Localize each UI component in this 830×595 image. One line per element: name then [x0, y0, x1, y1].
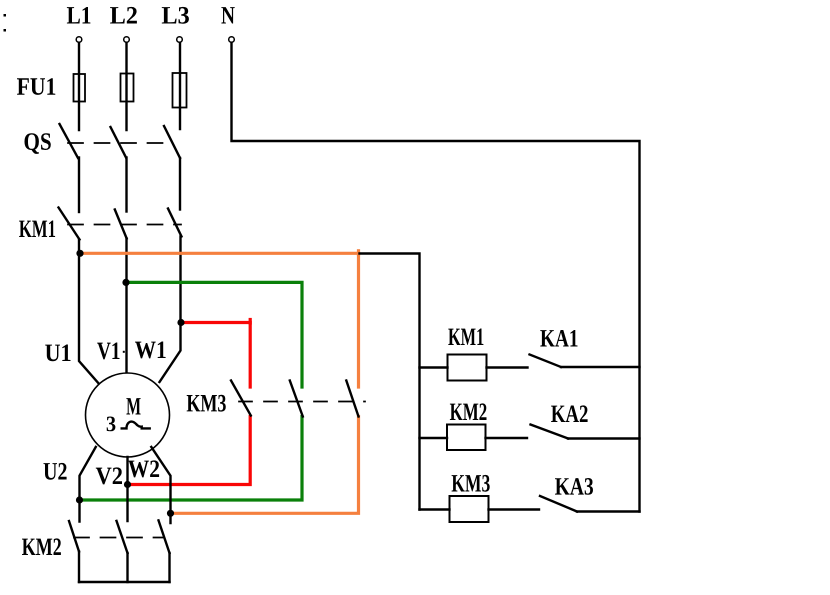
wire QS pole 3 to KM1	[179, 158, 181, 210]
coil KM1	[448, 355, 487, 381]
junction W2-orange	[167, 510, 174, 517]
fuse FU1 pole 2	[121, 74, 134, 102]
label QS	[25, 133, 51, 154]
wire L2 through fuse to QS	[125, 43, 127, 130]
label KM1 (coil)	[448, 329, 483, 346]
label 3 (motor)	[107, 417, 116, 432]
contact KM2 link (dashed)	[74, 537, 163, 539]
label W2	[128, 460, 159, 477]
wire motor W2 lead	[151, 447, 170, 523]
contact KM3 link (dashed)	[239, 401, 365, 403]
wire orange corner nub	[357, 251, 360, 254]
coil KM3	[450, 496, 489, 522]
wire star point bar	[79, 581, 170, 583]
contact KM2 pole 3 blade	[159, 520, 170, 553]
wire bus to coil KM2	[420, 437, 448, 439]
wire KM2 pole 3 down	[168, 553, 170, 582]
wire KM1 pole 1 to motor U1	[79, 240, 99, 385]
label KM3	[187, 395, 226, 412]
coil KM2	[447, 425, 486, 451]
label U2	[44, 463, 67, 480]
speck after V1	[123, 351, 125, 353]
wire L3 through fuse to QS	[179, 43, 181, 129]
junction V1-green	[122, 279, 129, 286]
wire bus to coil KM1	[420, 366, 448, 368]
wire coil KM1 to KA1	[487, 366, 528, 368]
junction U1-orange	[76, 250, 83, 257]
contact KM1 link (dashed)	[68, 224, 181, 226]
label V1	[97, 343, 119, 360]
wire N to right bus	[232, 43, 640, 512]
switch QS pole 2 blade	[111, 127, 127, 158]
wire L1 through fuse to QS	[78, 43, 80, 130]
wire coil KM3 to KA3	[489, 508, 540, 510]
contact KM1 pole 2 blade	[115, 210, 127, 239]
junction V2-red	[124, 481, 131, 488]
contact KM1 pole 3 blade	[168, 209, 182, 237]
junction W1-red	[177, 319, 184, 326]
contact KM3 pole 1 blade	[231, 381, 251, 416]
contact KA2 blade	[531, 425, 569, 439]
label KM1	[19, 221, 55, 238]
wire coil KM2 to KA2	[486, 437, 528, 439]
label L2	[110, 7, 137, 24]
switch QS pole 3 blade	[164, 126, 180, 158]
wire orange corner to coil bus	[360, 254, 420, 510]
wire KM2 pole 2 down	[126, 553, 128, 582]
wire KM2 pole 1 down	[78, 552, 80, 583]
contact KM2 pole 2 blade	[117, 521, 128, 553]
wire orange U1 to W2 (delta link)	[80, 253, 359, 387]
label N	[221, 7, 234, 23]
contact KA1 blade	[530, 355, 562, 368]
terminal N	[229, 37, 235, 43]
label KM2	[22, 538, 61, 555]
wire KA3 to N bus	[577, 510, 640, 512]
label M (motor)	[126, 398, 140, 414]
switch QS pole 1 blade	[60, 124, 79, 158]
junction U2-green	[76, 496, 83, 503]
contact KM2 pole 1 blade	[69, 521, 79, 552]
label U1	[45, 345, 70, 362]
wire motor V2 lead	[126, 457, 128, 521]
label KA3	[555, 478, 593, 495]
wire KA1 to N bus	[561, 366, 640, 368]
terminal L1	[76, 37, 82, 43]
contact KM3 pole 3 blade	[346, 381, 358, 417]
wire QS pole 1 to KM1	[78, 158, 80, 213]
wire red corner nub	[249, 320, 252, 324]
label FU1	[17, 78, 55, 95]
wire red W1 to V2 (delta link)	[181, 323, 250, 388]
label KA1	[540, 330, 577, 347]
motor AC squiggle	[122, 422, 150, 429]
fuse FU1 pole 1	[74, 74, 86, 102]
label L1	[67, 7, 91, 24]
contact KM3 pole 2 blade	[290, 381, 303, 417]
terminal L3	[177, 37, 183, 43]
label KM3 (coil)	[452, 475, 490, 492]
contact KM1 pole 1 blade	[59, 208, 80, 240]
motor M circle	[86, 373, 170, 457]
wire green V1 to U2 (delta link)	[126, 282, 302, 387]
fuse FU1 pole 3	[173, 73, 187, 108]
wire KA2 to N bus	[568, 437, 640, 439]
label W1	[135, 342, 166, 359]
wire QS pole 2 to KM1	[125, 158, 127, 212]
wire motor U2 lead	[80, 447, 96, 522]
terminal L2	[124, 37, 130, 43]
wire KM1 pole 2 to motor V1	[125, 239, 127, 374]
label KM2 (coil)	[450, 403, 487, 420]
label V2	[96, 467, 122, 484]
switch QS link (dashed)	[68, 142, 173, 144]
label L3	[162, 7, 189, 24]
contact KA3 blade	[540, 496, 577, 512]
wire KM1 pole 3 to motor W1	[160, 237, 181, 383]
wire bus to coil KM3	[420, 508, 450, 510]
label KA2	[551, 405, 588, 422]
